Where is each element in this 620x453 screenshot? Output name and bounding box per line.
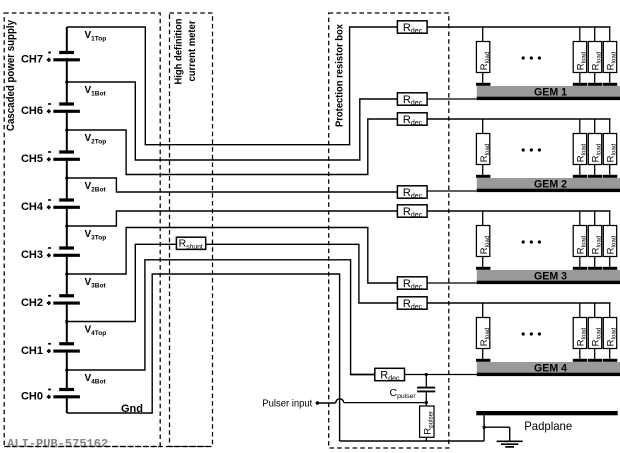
svg-text:CH6: CH6	[21, 105, 43, 117]
svg-text:current meter: current meter	[187, 20, 198, 81]
svg-text:GEM 2: GEM 2	[534, 178, 567, 190]
svg-text:CH2: CH2	[21, 297, 43, 309]
svg-text:ALI-PUB-575162: ALI-PUB-575162	[7, 437, 108, 451]
svg-text:GEM 1: GEM 1	[534, 86, 567, 98]
svg-text:CH1: CH1	[21, 345, 43, 357]
svg-text:CH0: CH0	[21, 391, 43, 403]
svg-text:CH5: CH5	[21, 153, 43, 165]
svg-text:CH3: CH3	[21, 249, 43, 261]
svg-text:High definition: High definition	[174, 19, 185, 85]
svg-text:CH7: CH7	[21, 54, 43, 66]
svg-text:GEM 3: GEM 3	[534, 270, 567, 282]
svg-text:Protection resistor box: Protection resistor box	[333, 24, 345, 127]
svg-text:GEM 4: GEM 4	[534, 362, 568, 374]
svg-text:Padplane: Padplane	[524, 419, 572, 433]
svg-text:Pulser input: Pulser input	[262, 399, 312, 410]
svg-text:Cascaded power supply: Cascaded power supply	[5, 19, 17, 131]
svg-text:CH4: CH4	[21, 201, 44, 213]
